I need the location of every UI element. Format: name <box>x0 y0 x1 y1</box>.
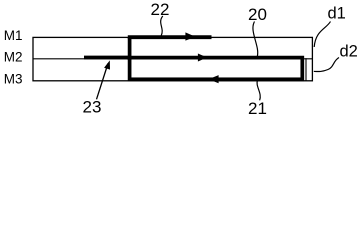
svg-text:20: 20 <box>248 5 267 24</box>
svg-text:d2: d2 <box>340 42 358 60</box>
svg-text:23: 23 <box>83 98 102 117</box>
svg-text:21: 21 <box>248 99 267 118</box>
svg-text:22: 22 <box>151 0 170 19</box>
svg-text:M3: M3 <box>4 71 23 86</box>
svg-text:d1: d1 <box>328 5 346 23</box>
svg-text:M2: M2 <box>4 50 23 65</box>
svg-text:M1: M1 <box>4 28 23 43</box>
